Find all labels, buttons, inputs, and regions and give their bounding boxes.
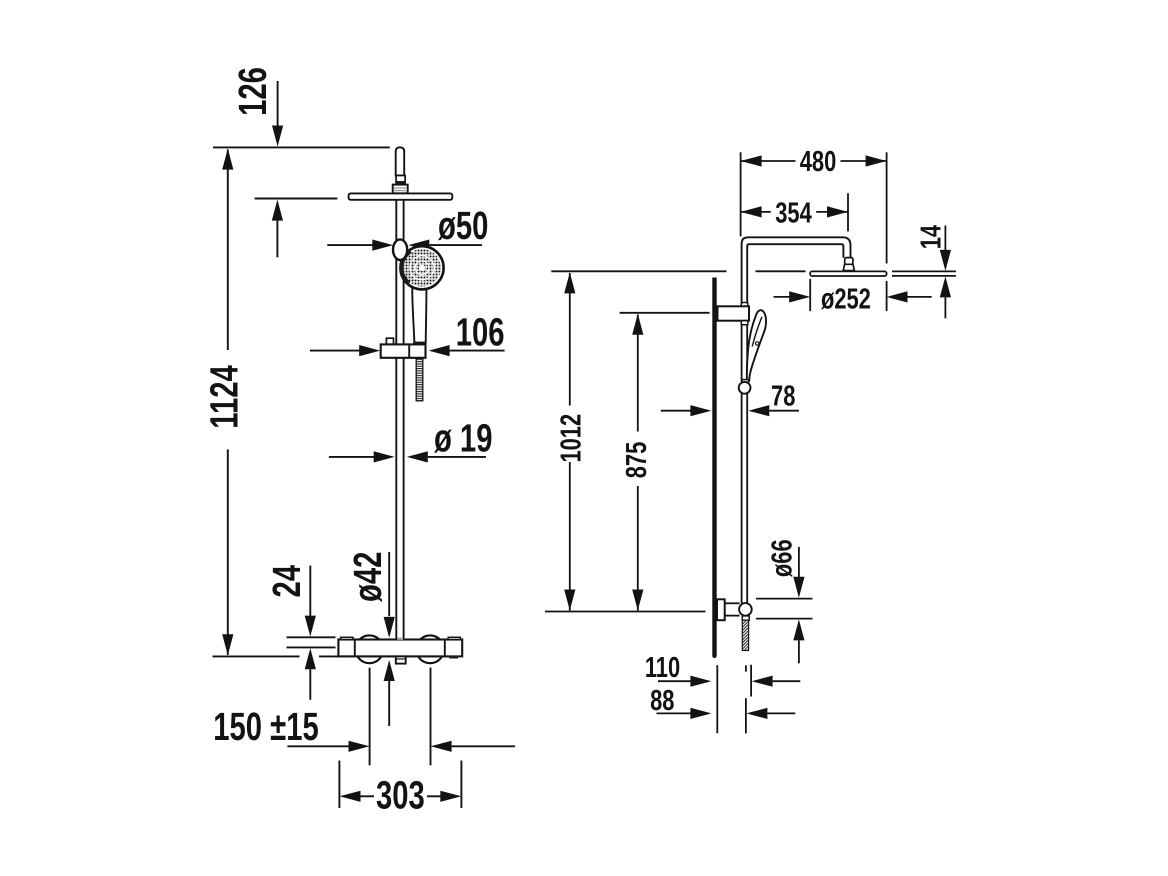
ribbed hose (front view) [416, 358, 423, 400]
svg-text:1124: 1124 [203, 365, 247, 428]
mixer right cap dark mark [449, 656, 458, 659]
dimension 480 (wall to head outer edge) [741, 146, 887, 311]
dimension 110 (wall to hose) [645, 652, 800, 696]
reference line: overhead shower disc level [255, 198, 338, 200]
top knob base [393, 185, 408, 194]
svg-text:ø66: ø66 [766, 539, 798, 577]
top knob ring [396, 176, 405, 182]
mixer body [338, 640, 462, 657]
dimension 24 (mixer offset) [265, 565, 336, 700]
hand shower handle (front view) [412, 285, 426, 343]
dimension 88 (wall to rail center) [650, 665, 795, 733]
overhead shower disc (front view) [349, 193, 453, 199]
dimension 150 +/-15 (supply connections) [213, 668, 515, 766]
svg-text:1012: 1012 [555, 414, 587, 463]
svg-text:ø42: ø42 [346, 552, 390, 602]
dimension 875 (rail length) [620, 313, 710, 611]
hand shower wand (side view) [747, 310, 766, 381]
mixer right valve cap circle [416, 635, 444, 663]
rail pipe (side view) lower segment [742, 394, 748, 604]
extension line at wall face (for 110/88) [716, 665, 718, 733]
dimension o252 (head diameter) [774, 279, 932, 315]
svg-text:ø 19: ø 19 [434, 416, 492, 460]
drop collar [845, 258, 853, 265]
mixer outlet [396, 656, 406, 663]
dimension 14 (head thickness) [916, 225, 951, 318]
top knob pin [396, 147, 405, 175]
lower hose nut [742, 616, 749, 620]
dimension o42 (mixer body diameter) [346, 552, 395, 726]
svg-text:78: 78 [771, 381, 795, 413]
riser pipe and arm outer contour [742, 237, 851, 306]
svg-text:24: 24 [265, 565, 309, 598]
svg-text:303: 303 [376, 774, 425, 818]
dimension 78 (wall to rail) [661, 381, 799, 417]
svg-text:88: 88 [650, 685, 674, 717]
handle dark band above holder [413, 342, 426, 345]
pipe plug into mixer [397, 638, 403, 640]
wand lower nut [742, 380, 749, 383]
svg-text:14: 14 [916, 225, 948, 249]
reference line: bottom (rail lower end) [545, 611, 706, 613]
lower bracket arm [725, 603, 740, 615]
svg-text:875: 875 [621, 442, 653, 479]
svg-text:126: 126 [231, 67, 275, 116]
rail holder block (front view) [381, 338, 426, 358]
dimension o66 (lower bracket) [756, 539, 813, 663]
reference line: bottom of unit (mixer axis level) [213, 655, 339, 657]
dimension 1012 (wall height) [555, 272, 587, 610]
dimension 303 (mixer width) [339, 761, 461, 818]
overhead head slab (side view) [810, 271, 887, 276]
svg-text:ø50: ø50 [438, 204, 488, 248]
mixer right cap tab [448, 637, 460, 639]
svg-text:110: 110 [645, 652, 680, 684]
shower rail pipe (front view) [396, 200, 403, 640]
dimension 1124 (overall height, left) [203, 149, 247, 656]
mixer left cap tab [341, 637, 353, 639]
wall section bar [712, 278, 716, 659]
lower wall bracket plate [717, 599, 725, 620]
rail holder (side view) [718, 302, 750, 324]
svg-text:ø252: ø252 [821, 283, 871, 315]
dimension line o50 (hand shower holder knob) [327, 204, 488, 251]
dimension o19 (rail diameter) [329, 416, 493, 462]
riser pipe and arm inner contour [747, 244, 843, 306]
svg-text:480: 480 [800, 146, 837, 178]
mixer left valve cap circle [356, 635, 384, 663]
dimension 126 (vertical, above top reference line) [231, 67, 283, 146]
wand ball joint [739, 382, 751, 394]
dimension 106 (holder depth) [310, 310, 505, 356]
hand shower head (front view) [400, 246, 443, 289]
svg-text:150 ±15: 150 ±15 [213, 705, 318, 749]
rail pipe (side view) upper segment [742, 321, 748, 382]
holder knob oval (o50) [393, 239, 407, 260]
reference line: head top level [551, 271, 956, 276]
drop nut [843, 264, 854, 270]
ribbed hose (side view) [742, 620, 748, 650]
top knob dark band [395, 182, 406, 185]
reference line: top of unit [213, 146, 390, 148]
lower ball joint [739, 603, 752, 616]
svg-text:354: 354 [775, 197, 812, 229]
svg-text:106: 106 [456, 310, 505, 354]
dimension 354 (riser to drop center) [741, 193, 848, 231]
dimension 126 lower arrow (points up to disc level) [272, 200, 283, 258]
